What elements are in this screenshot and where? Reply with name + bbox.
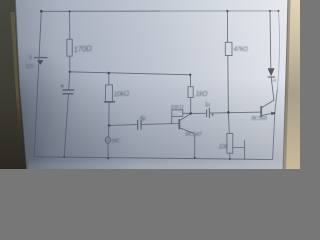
svg-text:10kΩ: 10kΩ (113, 90, 130, 98)
svg-text:1μ: 1μ (205, 102, 211, 108)
svg-text:10k: 10k (219, 145, 229, 151)
svg-text:47kΩ: 47kΩ (234, 46, 249, 53)
svg-text:100 Ω: 100 Ω (171, 105, 184, 111)
svg-text:BC547: BC547 (185, 132, 202, 139)
svg-text:170Ω: 170Ω (73, 44, 92, 54)
svg-text:BC550: BC550 (252, 116, 269, 122)
svg-text:1kΩ: 1kΩ (196, 91, 209, 98)
svg-text:12V: 12V (26, 64, 35, 70)
svg-text:MIC: MIC (112, 138, 121, 144)
svg-text:4μ: 4μ (140, 116, 147, 122)
